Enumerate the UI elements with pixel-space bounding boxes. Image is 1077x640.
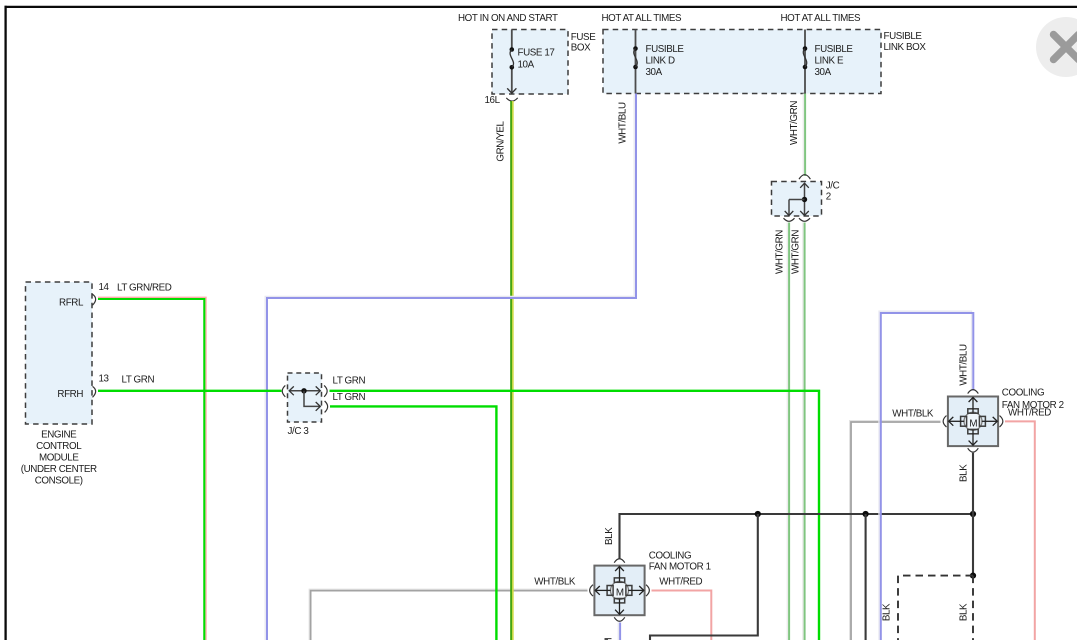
svg-text:HOT AT ALL TIMES: HOT AT ALL TIMES [602,13,682,24]
wire LT GRN/RED from RFRL [98,297,206,640]
svg-text:COOLING: COOLING [649,551,691,562]
svg-text:ENGINE: ENGINE [41,430,77,441]
svg-text:GRN/YEL: GRN/YEL [496,120,507,161]
fuse F17 internal wire with arrow [507,30,516,94]
wire BLK drop at x=866 [865,514,867,640]
label J/C 3 [288,426,310,437]
svg-text:WHT/GRN: WHT/GRN [775,230,786,274]
svg-text:J/C: J/C [826,180,840,191]
wire GRN/YEL vertical [511,101,513,640]
junction block J/C 3 [282,373,327,422]
label HOT AT ALL TIMES (right) [781,13,861,24]
svg-text:WHT/BLK: WHT/BLK [534,577,576,588]
dashed BLK ground wire left [898,576,973,640]
fusible link D internal wire [635,30,637,94]
svg-text:2: 2 [826,191,831,202]
svg-text:LINK D: LINK D [646,55,676,66]
label WHT/RED (motor 2) [1008,408,1051,419]
label BLK (ground left) [882,603,893,621]
svg-text:FAN MOTOR 1: FAN MOTOR 1 [649,562,711,573]
wire BLK drop at x=758 [650,514,758,640]
fusible link box (dashed) [603,30,881,94]
wire BLK from motor 1 top with junction bus [620,514,974,559]
svg-text:COOLING: COOLING [1002,388,1044,399]
junction dot at 758,514 [755,511,761,517]
junction dot at 973,576 [970,573,976,579]
label WHT/BLU (link D) [617,102,628,144]
svg-text:30A: 30A [815,67,832,78]
svg-text:BLK: BLK [959,603,970,621]
svg-text:13: 13 [99,374,110,385]
svg-text:WHT/BLK: WHT/BLK [892,409,934,420]
pin number 13 and label LT GRN [99,374,155,386]
svg-text:MODULE: MODULE [39,453,79,464]
label COOLING FAN MOTOR 2 [1002,388,1064,412]
border frame left [4,6,6,640]
label J/C 2 [826,180,840,202]
label FUSIBLE LINK E 30A [815,44,854,78]
wire WHT/GRN left branch from J/C 2 [787,223,789,640]
fuse box (dashed) [492,30,568,95]
svg-text:CONSOLE): CONSOLE) [35,476,83,487]
svg-text:FUSIBLE: FUSIBLE [884,31,923,42]
close button [1036,17,1077,77]
wire LT GRN from RFRH to J/C 3 [98,390,282,392]
svg-text:FUSE: FUSE [571,32,596,43]
svg-text:(UNDER CENTER: (UNDER CENTER [21,464,97,475]
label WHT/GRN (left branch) [775,230,786,274]
label BLK (ground right) [959,603,970,621]
wire WHT/GRN from link E to J/C 2 [803,94,805,177]
fusible link E element symbol [803,46,808,69]
svg-text:WHT/GRN: WHT/GRN [790,230,801,274]
ECM box (dashed) [26,282,93,424]
svg-text:FUSIBLE: FUSIBLE [815,44,854,55]
wire WHT/GRN right branch from J/C 2 [803,223,805,640]
svg-text:16L: 16L [485,95,501,106]
pin number 14 and label LT GRN/RED [99,282,172,294]
svg-text:RFRL: RFRL [59,297,84,308]
svg-text:BLK: BLK [959,464,970,482]
label FUSE 17 10A [518,47,555,70]
wire WHT/BLK to motor 2 [850,421,941,640]
wire WHT/BLU from link D [265,94,636,640]
svg-text:LT GRN: LT GRN [333,392,366,403]
wire WHT/BLU below motor 1 [618,623,620,640]
border frame top [5,6,1077,8]
label ENGINE CONTROL MODULE (UNDER CENTER CONSOLE) [21,430,97,487]
label BLK (motor 1) [604,527,615,545]
svg-text:WHT/RED: WHT/RED [659,577,702,588]
connector 16L below fuse box [485,95,518,106]
junction block J/C 2 [772,175,822,222]
svg-text:FUSIBLE: FUSIBLE [646,44,685,55]
fusible link D element symbol [633,46,638,69]
svg-text:BLK: BLK [604,527,615,545]
label HOT AT ALL TIMES (left) [602,13,682,24]
label WHT/GRN (right branch) [790,230,801,274]
svg-text:BOX: BOX [571,42,591,53]
svg-text:14: 14 [99,282,110,293]
junction dot at 866,514 [863,511,869,517]
label WHT/GRN (link E) [789,101,800,145]
label FUSIBLE LINK BOX [884,31,927,53]
label GRN/YEL [496,120,507,161]
wire WHT/BLU to motor 2 [879,311,973,640]
svg-text:WHT/BLU: WHT/BLU [959,344,970,386]
wire LT GRN from J/C 3 to right [330,391,820,640]
svg-text:HOT IN ON AND START: HOT IN ON AND START [458,13,558,24]
svg-text:LT GRN: LT GRN [122,374,155,385]
wire LT GRN lower from J/C 3 [330,406,496,640]
svg-text:FAN MOTOR 2: FAN MOTOR 2 [1002,400,1064,411]
wire WHT/RED from motor 2 [1005,421,1035,640]
label FUSE BOX [571,32,596,53]
labels LT GRN at J/C 3 [333,376,366,404]
svg-text:LT GRN/RED: LT GRN/RED [117,283,172,294]
junction dot at 973,514 [970,511,976,517]
label WHT/BLK (motor 2) [892,409,934,420]
svg-text:WHT/GRN: WHT/GRN [789,101,800,145]
fusible link E internal wire [804,30,806,94]
label WHT/RED (motor 1) [659,577,702,588]
cooling fan motor 2 [943,390,1003,453]
label COOLING FAN MOTOR 1 [649,551,711,573]
svg-text:30A: 30A [646,67,663,78]
label FUSIBLE LINK D 30A [646,44,685,78]
svg-text:LINK E: LINK E [815,55,845,66]
label WHT/BLU (motor 2) [959,344,970,386]
ECM pin RFRH connector [57,386,95,399]
svg-text:CONTROL: CONTROL [36,441,82,452]
svg-text:FUSE 17: FUSE 17 [518,47,555,58]
label HOT IN ON AND START [458,13,558,24]
svg-text:LT GRN: LT GRN [333,376,366,387]
wire WHT/RED from motor 1 [652,591,712,640]
ECM pin RFRL connector [59,294,96,308]
svg-text:10A: 10A [518,59,535,70]
label BLK (motor 2 bottom) [959,464,970,482]
wire BLK from motor 2 bottom [972,453,974,576]
svg-text:BLK: BLK [882,603,893,621]
dashed BLK ground wire right [972,576,974,640]
label fragment below motor 1 [605,639,612,640]
svg-text:RFRH: RFRH [57,389,83,400]
wire WHT/BLK to motor 1 [309,589,587,640]
svg-text:J/C 3: J/C 3 [288,426,310,437]
cooling fan motor 1 [590,559,650,622]
label WHT/BLK (motor 1) [534,577,576,588]
svg-text:WHT/BLU: WHT/BLU [617,102,628,144]
fuse F17 element symbol [510,47,515,69]
svg-text:HOT AT ALL TIMES: HOT AT ALL TIMES [781,13,861,24]
svg-text:LINK BOX: LINK BOX [884,42,927,53]
